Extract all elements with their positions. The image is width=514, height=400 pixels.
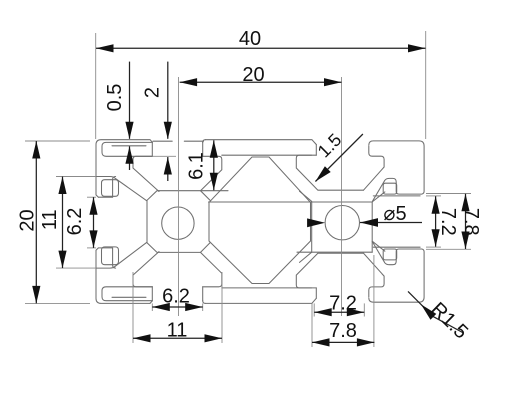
dimension 20 bore spacing [180, 64, 342, 86]
bottom center web line [222, 287, 312, 289]
bottom-right V-slot cavity [296, 253, 363, 298]
dimension 6.1 slot depth [186, 140, 218, 190]
svg-text:11: 11 [167, 320, 188, 342]
central cavity octagon [209, 157, 311, 284]
top-left slot opening stub lines [153, 140, 204, 142]
svg-text:7.8: 7.8 [460, 208, 482, 236]
dimension 0.5 groove depth [104, 62, 134, 170]
svg-text:2: 2 [141, 87, 163, 98]
left bore boss octagon [147, 191, 210, 253]
right center bore [325, 206, 359, 240]
extension lines 6.2 left [87, 197, 96, 248]
top-left surface groove band [102, 142, 152, 156]
slot cavity floor stub for 6.1 dimension [201, 190, 228, 192]
left end slot lower lip box [102, 247, 119, 265]
top-right corner inner band and finger box [364, 146, 421, 196]
centerline right cell [341, 77, 343, 316]
svg-text:20: 20 [17, 209, 39, 231]
extension lines 11 bottom [133, 272, 222, 343]
svg-text:6.1: 6.1 [186, 152, 208, 180]
svg-text:0.5: 0.5 [104, 84, 126, 112]
dimension 7.2 slot opening bottom [314, 293, 364, 317]
dimension 40 overall width [96, 28, 426, 52]
bottom-left surface groove band [102, 287, 152, 301]
svg-text:40: 40 [239, 28, 261, 50]
profile bottom-right corner block outline [369, 242, 424, 302]
svg-text:⌀5: ⌀5 [383, 203, 406, 225]
dimension 6.2 slot opening bottom [152, 286, 202, 312]
dimension 11 slot cavity width left [39, 177, 67, 269]
extension lines 6.2 bottom [152, 303, 202, 311]
top center web line [222, 154, 312, 156]
left end slot cavity and lips [97, 177, 147, 269]
profile bottom-left corner and left face [96, 145, 150, 304]
svg-text:7.2: 7.2 [437, 208, 459, 236]
centerline left cell [178, 77, 180, 316]
leader R1.5 corner radius [408, 291, 472, 343]
dimension 11 slot cavity width bottom [133, 320, 222, 343]
extension line 40 left [95, 33, 97, 139]
extension line 40 right [425, 31, 427, 139]
profile bottom face [150, 298, 316, 303]
extension stub for 2 dimension [153, 155, 177, 157]
bottom-left T-slot cavity [133, 252, 222, 301]
extension lines 7.2 bottom [314, 303, 364, 316]
left end slot upper lip box [102, 180, 119, 197]
top-right V-slot cavity [296, 145, 363, 191]
svg-text:11: 11 [39, 209, 61, 230]
svg-text:20: 20 [242, 64, 264, 86]
profile outer boundary top-left corner and top face [96, 140, 316, 145]
extension lines 7.2 right [426, 196, 441, 247]
right bore boss square [209, 202, 373, 252]
left center bore [162, 207, 194, 239]
extension lines 11 left [56, 177, 96, 269]
profile top-right corner block outline [369, 141, 424, 201]
svg-text:6.2: 6.2 [162, 286, 190, 308]
dimension 7.8 slot face opening right [460, 194, 482, 249]
dimension 6.2 slot opening left [64, 197, 98, 248]
right boss corner web diagonals [300, 191, 385, 262]
extension lines 7.8 bottom [312, 255, 374, 347]
dimension 7.2 slot opening right [432, 196, 460, 247]
svg-text:6.2: 6.2 [64, 208, 86, 236]
bottom-right corner inner band and finger box [364, 247, 421, 297]
leader 1.5 wall thickness [314, 130, 363, 182]
leader diameter 5 bore [307, 203, 422, 227]
extension lines 7.8 right [426, 194, 471, 250]
top-left T-slot cavity [133, 142, 222, 191]
dimension 20 overall height [17, 141, 41, 303]
dimension 7.8 slot face opening bottom [312, 320, 374, 347]
svg-text:7.8: 7.8 [329, 320, 357, 342]
extension lines 20 left [25, 141, 90, 303]
dimension 2 lip thickness [141, 62, 172, 181]
svg-text:7.2: 7.2 [329, 293, 357, 315]
